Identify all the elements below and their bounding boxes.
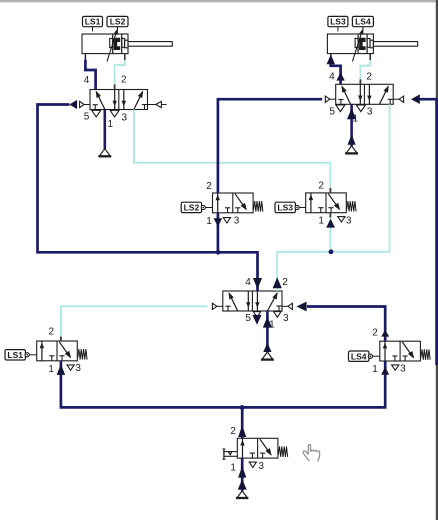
exhaust V2 port 3 bbox=[356, 105, 365, 112]
junction node N3 on supply bus bbox=[240, 405, 245, 410]
label LS2 bbox=[107, 16, 128, 26]
valve LS2 3/2-way roller (actuated) bbox=[213, 193, 263, 213]
svg-text:LS2: LS2 bbox=[110, 17, 126, 27]
svg-text:3: 3 bbox=[346, 215, 352, 226]
valve V2 right pilot port 12 bbox=[393, 96, 404, 102]
svg-text:5: 5 bbox=[329, 107, 335, 118]
wire LS2 valve port 2 to V2 left pilot bbox=[218, 99, 322, 193]
wire LS4 valve port 2 to V3 right pilot bbox=[296, 302, 389, 342]
exhaust V1 port 3 bbox=[110, 110, 119, 117]
svg-text:2: 2 bbox=[282, 277, 288, 288]
svg-text:5: 5 bbox=[84, 112, 90, 123]
compressed air supply at V3 port 1 bbox=[261, 352, 274, 360]
svg-text:LS4: LS4 bbox=[355, 17, 371, 27]
valve V1 port labels 4 2 5 1 3 bbox=[84, 75, 128, 131]
label LS4 bbox=[352, 16, 373, 26]
wire A2 front port to V2 port 2 (exhausting) bbox=[360, 54, 370, 85]
compressed air supply at V4 port 1 bbox=[236, 491, 248, 498]
svg-text:4: 4 bbox=[245, 277, 251, 288]
exhaust LS1 valve port 3 bbox=[67, 365, 74, 370]
wire LS1 valve port 2 to V3 left pilot bbox=[61, 306, 208, 341]
junction node N1 bbox=[216, 250, 221, 255]
roller label LS1 bbox=[5, 350, 37, 360]
manual actuator of V4 bbox=[222, 449, 237, 459]
limit switch actuation arrow LS4 bbox=[352, 28, 363, 61]
svg-text:3: 3 bbox=[234, 215, 240, 226]
wire V2 to junction N2 bbox=[331, 104, 390, 252]
compressed air supply at V1 port 1 bbox=[98, 149, 111, 157]
svg-text:LS3: LS3 bbox=[277, 203, 293, 213]
wire V1 to LS3 valve port 2 bbox=[134, 110, 330, 193]
exhaust LS4 valve port 3 bbox=[392, 365, 399, 370]
svg-text:1: 1 bbox=[372, 364, 378, 375]
exhaust LS3 valve port 3 bbox=[338, 217, 345, 222]
wire V2 right pilot from LS4 output bbox=[411, 94, 437, 365]
exhaust V3 port 5 with outflow arrow bbox=[252, 312, 261, 325]
wire A1 rear port to V1 port 4 bbox=[85, 54, 95, 90]
svg-text:2: 2 bbox=[366, 71, 372, 82]
svg-text:3: 3 bbox=[258, 461, 264, 472]
wire junction N1 to V3 port 4 bbox=[218, 252, 262, 291]
valve LS3 3/2-way roller (released) bbox=[306, 193, 356, 213]
wire junction N2 to V3 port 2 bbox=[273, 252, 331, 291]
exhaust V3 port 3 bbox=[274, 312, 281, 318]
svg-text:3: 3 bbox=[75, 363, 81, 374]
valve V3 port labels 4 2 5 1 3 bbox=[245, 277, 289, 330]
svg-text:4: 4 bbox=[329, 71, 335, 82]
valve V3 5/2-way (signal selector) bbox=[223, 291, 282, 311]
valve V1 left pilot port 14 bbox=[79, 101, 90, 107]
valve LS2 port labels 2 1 3 bbox=[206, 181, 240, 227]
svg-text:4: 4 bbox=[84, 75, 90, 86]
valve V3 left pilot port 14 bbox=[212, 303, 223, 309]
valve LS4 port labels 2 1 3 bbox=[372, 328, 406, 375]
cylinder A2 (double acting, extended) bbox=[327, 27, 417, 54]
svg-text:2: 2 bbox=[318, 180, 324, 191]
svg-text:3: 3 bbox=[122, 113, 128, 124]
label LS1 bbox=[83, 16, 103, 26]
svg-text:2: 2 bbox=[206, 181, 212, 192]
svg-text:3: 3 bbox=[400, 364, 406, 375]
svg-text:1: 1 bbox=[318, 215, 324, 226]
wire A2 rear port to V2 port 4 bbox=[327, 54, 345, 85]
valve V4 3/2-way manually operated (start) bbox=[237, 438, 287, 458]
compressed air supply at V2 port 1 bbox=[345, 146, 358, 154]
limit switch actuation arrow LS2 bbox=[107, 28, 118, 61]
svg-text:5: 5 bbox=[245, 313, 251, 324]
valve V4 port labels 2 1 3 bbox=[230, 426, 264, 473]
svg-text:2: 2 bbox=[121, 75, 127, 86]
wire V1 left pilot signal line bbox=[38, 100, 219, 252]
wire A1 front port to V1 port 2 (exhausting) bbox=[115, 54, 125, 90]
svg-text:LS4: LS4 bbox=[351, 351, 367, 361]
roller label LS3 bbox=[275, 202, 306, 212]
wire LS2 valve port 1 down to junction N1 bbox=[214, 213, 223, 253]
wire LS3 valve port 1 to junction N2 bbox=[326, 213, 335, 252]
valve LS4 3/2-way roller (actuated) bbox=[380, 341, 430, 361]
exhaust V2 port 5 bbox=[336, 105, 345, 112]
roller label LS4 bbox=[349, 351, 380, 361]
svg-text:LS2: LS2 bbox=[184, 203, 200, 213]
wire supply bus LS1 valve to LS4 valve bbox=[57, 361, 390, 408]
svg-text:2: 2 bbox=[49, 327, 55, 338]
wire V2 port 1 to air supply with flow arrows bbox=[347, 104, 356, 146]
cylinder A1 (double acting, extended) bbox=[82, 27, 172, 54]
svg-text:3: 3 bbox=[283, 313, 289, 324]
valve LS3 port labels 2 1 3 bbox=[318, 180, 351, 226]
valve V2 left pilot port 14 bbox=[325, 96, 336, 102]
svg-text:LS1: LS1 bbox=[85, 17, 101, 27]
junction node N2 bbox=[329, 249, 334, 254]
svg-text:2: 2 bbox=[372, 328, 378, 339]
svg-text:1: 1 bbox=[108, 119, 114, 130]
valve LS1 3/2-way roller (released) bbox=[37, 341, 87, 361]
label LS3 bbox=[328, 16, 348, 26]
valve V2 port labels 4 2 5 1 3 bbox=[329, 71, 373, 124]
valve LS1 port labels 2 1 3 bbox=[48, 327, 81, 375]
exhaust V4 port 3 bbox=[249, 462, 256, 467]
svg-text:3: 3 bbox=[367, 107, 373, 118]
svg-text:1: 1 bbox=[48, 364, 54, 375]
valve V1 5/2-way (left cylinder) bbox=[90, 90, 148, 110]
hand cursor icon bbox=[303, 445, 320, 461]
valve V2 5/2-way (right cylinder) bbox=[336, 84, 394, 104]
valve V1 right pilot stub port 12 bbox=[148, 101, 167, 107]
exhaust LS2 valve port 3 bbox=[223, 218, 230, 223]
roller label LS2 bbox=[181, 202, 212, 212]
wire V4 port 2 to supply bus bbox=[238, 407, 246, 438]
svg-text:1: 1 bbox=[230, 463, 236, 474]
wire V4 port 1 to air supply bbox=[238, 458, 247, 491]
svg-text:2: 2 bbox=[230, 426, 236, 437]
exhaust V1 port 5 bbox=[92, 110, 101, 117]
svg-text:LS3: LS3 bbox=[330, 17, 346, 27]
svg-text:1: 1 bbox=[206, 216, 212, 227]
svg-text:LS1: LS1 bbox=[7, 350, 23, 360]
valve V3 right pilot port 12 bbox=[282, 303, 293, 309]
wire V3 port 1 to air supply with flow arrows bbox=[263, 311, 272, 352]
wire V1 port 1 to air supply bbox=[104, 110, 107, 149]
